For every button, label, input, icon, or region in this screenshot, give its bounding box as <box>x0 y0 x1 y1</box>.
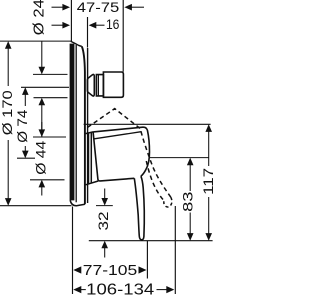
dim Ø74 bottom arrow <box>22 146 29 158</box>
dim Ø170 top arrow <box>5 41 12 86</box>
escutcheon plate side view <box>70 41 87 205</box>
baseline lever tip <box>89 240 213 242</box>
dim 47-75 right arrow <box>124 4 144 11</box>
dim 77-105 right arrow <box>139 266 147 273</box>
dim 47-75 left arrow <box>52 4 71 11</box>
dim 32 text <box>95 211 111 230</box>
diverter spindle stub <box>87 72 123 97</box>
ext line plate front down <box>72 207 74 295</box>
dim Ø74 top arrow <box>22 87 29 106</box>
ext line plate bottom right <box>96 205 113 207</box>
dim 83 bottom arrow <box>187 213 194 241</box>
dim 117 top arrow <box>205 124 212 166</box>
svg-text:16: 16 <box>106 17 120 32</box>
dim Ø170 text <box>0 90 15 135</box>
dim 106-134 left arrow <box>73 286 86 293</box>
ext line stub top <box>33 73 68 75</box>
dim 32 lower arrow <box>101 241 108 258</box>
ext line handle side <box>150 157 209 159</box>
svg-text:47-75: 47-75 <box>77 0 120 15</box>
dim Ø24 lower arrow <box>39 98 46 137</box>
dim 83 top arrow <box>187 158 194 191</box>
svg-text:32: 32 <box>95 211 111 230</box>
dim Ø74 text <box>15 109 30 142</box>
ext line plate top <box>0 40 71 42</box>
svg-text:Ø 44: Ø 44 <box>34 140 49 174</box>
svg-text:117: 117 <box>200 168 216 195</box>
ext line dashed tip down <box>174 206 176 294</box>
dim 47-75 text <box>77 0 120 15</box>
dim 117 text <box>200 168 216 195</box>
ext line plate rim top <box>87 17 89 48</box>
dim 16 left arrow <box>52 22 71 29</box>
dim 16 text <box>106 17 120 32</box>
dashed lever raised <box>146 161 172 207</box>
svg-text:Ø 24: Ø 24 <box>32 0 48 35</box>
svg-text:83: 83 <box>180 191 196 212</box>
ext line spindle end <box>122 0 124 72</box>
ext line plate bottom <box>0 205 72 207</box>
svg-text:106-134: 106-134 <box>86 282 154 299</box>
dim Ø44 upper arrow <box>39 122 46 137</box>
dim 77-105 text <box>83 263 138 279</box>
ext line Ø74 bottom <box>17 157 35 159</box>
svg-text:Ø 74: Ø 74 <box>15 109 30 142</box>
dim 117 bottom arrow <box>205 197 212 241</box>
ext line Ø44 bottom <box>30 179 65 181</box>
handle base cone <box>86 132 99 185</box>
dim 106-134 right arrow <box>157 286 175 293</box>
label Ø 24 <box>32 0 48 35</box>
ext line wall plane <box>70 0 72 42</box>
ext line Ø44 top <box>33 136 66 138</box>
handle lever <box>134 176 144 240</box>
dashed handle outline raised <box>88 109 171 198</box>
dim 106-134 text <box>86 282 154 299</box>
handle body <box>93 127 149 181</box>
dim Ø24 upper arrow <box>39 41 46 74</box>
dim 32 upper arrow <box>101 189 108 206</box>
dim Ø44 text <box>34 140 49 174</box>
dim 83 text <box>180 191 196 212</box>
ext line stub bottom <box>34 97 68 99</box>
ext line lever tip down <box>146 241 148 279</box>
dim Ø44 lower arrow <box>39 180 46 196</box>
ext line Ø74 top <box>21 86 69 88</box>
ext line handle top <box>84 123 211 125</box>
dim Ø170 bottom arrow <box>5 140 12 206</box>
svg-text:77-105: 77-105 <box>83 263 138 279</box>
dim 16 arrow <box>89 22 105 29</box>
dim 77-105 left arrow <box>73 266 81 273</box>
svg-text:Ø 170: Ø 170 <box>0 90 15 135</box>
